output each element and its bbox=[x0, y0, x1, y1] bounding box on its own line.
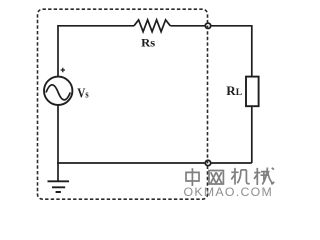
char 械 bbox=[254, 168, 274, 186]
char 网 bbox=[209, 171, 223, 185]
wire: source bottom down to ground bbox=[57, 105, 59, 181]
svg-text:Vs: Vs bbox=[77, 87, 88, 102]
char 机 bbox=[231, 168, 250, 185]
AC source Vs (circle with sine) bbox=[44, 77, 72, 105]
wire: Rs to top-right corner and down to RL bbox=[170, 26, 252, 77]
node B (bottom output terminal) bbox=[205, 160, 210, 165]
dashed enclosure (Thevenin source box) bbox=[38, 9, 208, 199]
wire: top-left from source up and right to Rs bbox=[58, 26, 134, 77]
svg-text:OKMAO.COM: OKMAO.COM bbox=[184, 185, 274, 199]
svg-text:Rs: Rs bbox=[141, 36, 155, 50]
wire: bottom rail bbox=[57, 162, 252, 164]
wire: RL down to bottom-right corner bbox=[251, 106, 253, 163]
ground bbox=[48, 181, 70, 192]
resistor Rs (zigzag) bbox=[134, 20, 170, 32]
char 中 bbox=[186, 168, 199, 186]
polarity + mark bbox=[61, 68, 65, 72]
watermark: Chinese characters 中网机械 drawn as strokes bbox=[186, 168, 274, 187]
resistor RL (box) bbox=[246, 77, 259, 107]
node A (top output terminal) bbox=[205, 23, 210, 28]
